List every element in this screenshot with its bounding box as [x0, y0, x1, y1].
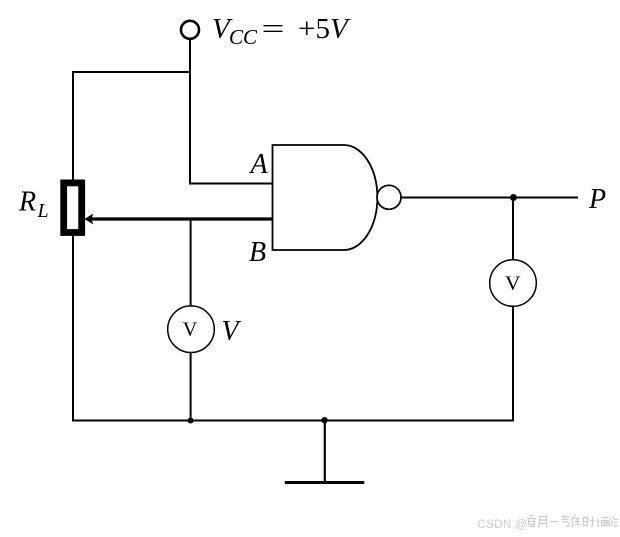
wire top horizontal (y=72, left branch to RL) [72, 71, 191, 73]
wire from wiper line down to voltmeter V1 (x=190.6) [190, 219, 192, 307]
junction dot left meter / ground rail [188, 418, 194, 424]
junction dot at output node [510, 194, 517, 201]
label Vcc = +5V [212, 13, 351, 49]
svg-text:B: B [249, 237, 266, 268]
voltmeter V1 (middle) [168, 306, 215, 353]
wire bottom horizontal (ground rail y=420.5) [72, 420, 514, 422]
svg-text:V: V [183, 319, 198, 341]
voltmeter V2 (right) [490, 260, 537, 307]
nand gate U1 body [273, 145, 378, 250]
resistor RL (thick rectangle) [64, 183, 82, 233]
wire input A (y=183.5) [189, 183, 273, 185]
svg-text:=: = [262, 13, 285, 45]
wire right vertical below V2 (x=513) [512, 306, 514, 422]
svg-text:R: R [18, 187, 36, 218]
wire left vertical below RL (x=73) [72, 235, 74, 422]
terminal Vcc (open circle) [181, 21, 199, 39]
svg-text:A: A [249, 149, 269, 180]
wire left vertical above RL (x=73) [72, 71, 74, 180]
svg-text:CC: CC [229, 25, 258, 49]
watermark CSDN [478, 516, 619, 532]
svg-text:+: + [298, 13, 316, 45]
svg-text:5: 5 [316, 13, 331, 45]
nand gate U1 inversion bubble [377, 185, 401, 209]
wire gate output to node P [401, 197, 578, 199]
label RL [18, 187, 49, 223]
wire below voltmeter V1 (x=190.6) [190, 352, 192, 421]
svg-text:V: V [222, 316, 242, 347]
ground bar [285, 481, 365, 484]
ground stub wire (x=324.8) [324, 420, 326, 483]
svg-text:L: L [37, 200, 49, 222]
svg-text:P: P [588, 184, 606, 215]
svg-text:V: V [505, 272, 521, 294]
arrowhead at RL wiper [84, 214, 93, 225]
wire Vcc vertical (x=190, terminal to node A line) [189, 40, 191, 185]
svg-text:CSDN @: CSDN @ [478, 519, 528, 531]
wire right vertical to voltmeter V2 (x=513) [512, 198, 514, 261]
junction dot ground stub / rail [321, 417, 327, 423]
wire thick wiper arrow (RL to gate input B) [90, 217, 273, 220]
